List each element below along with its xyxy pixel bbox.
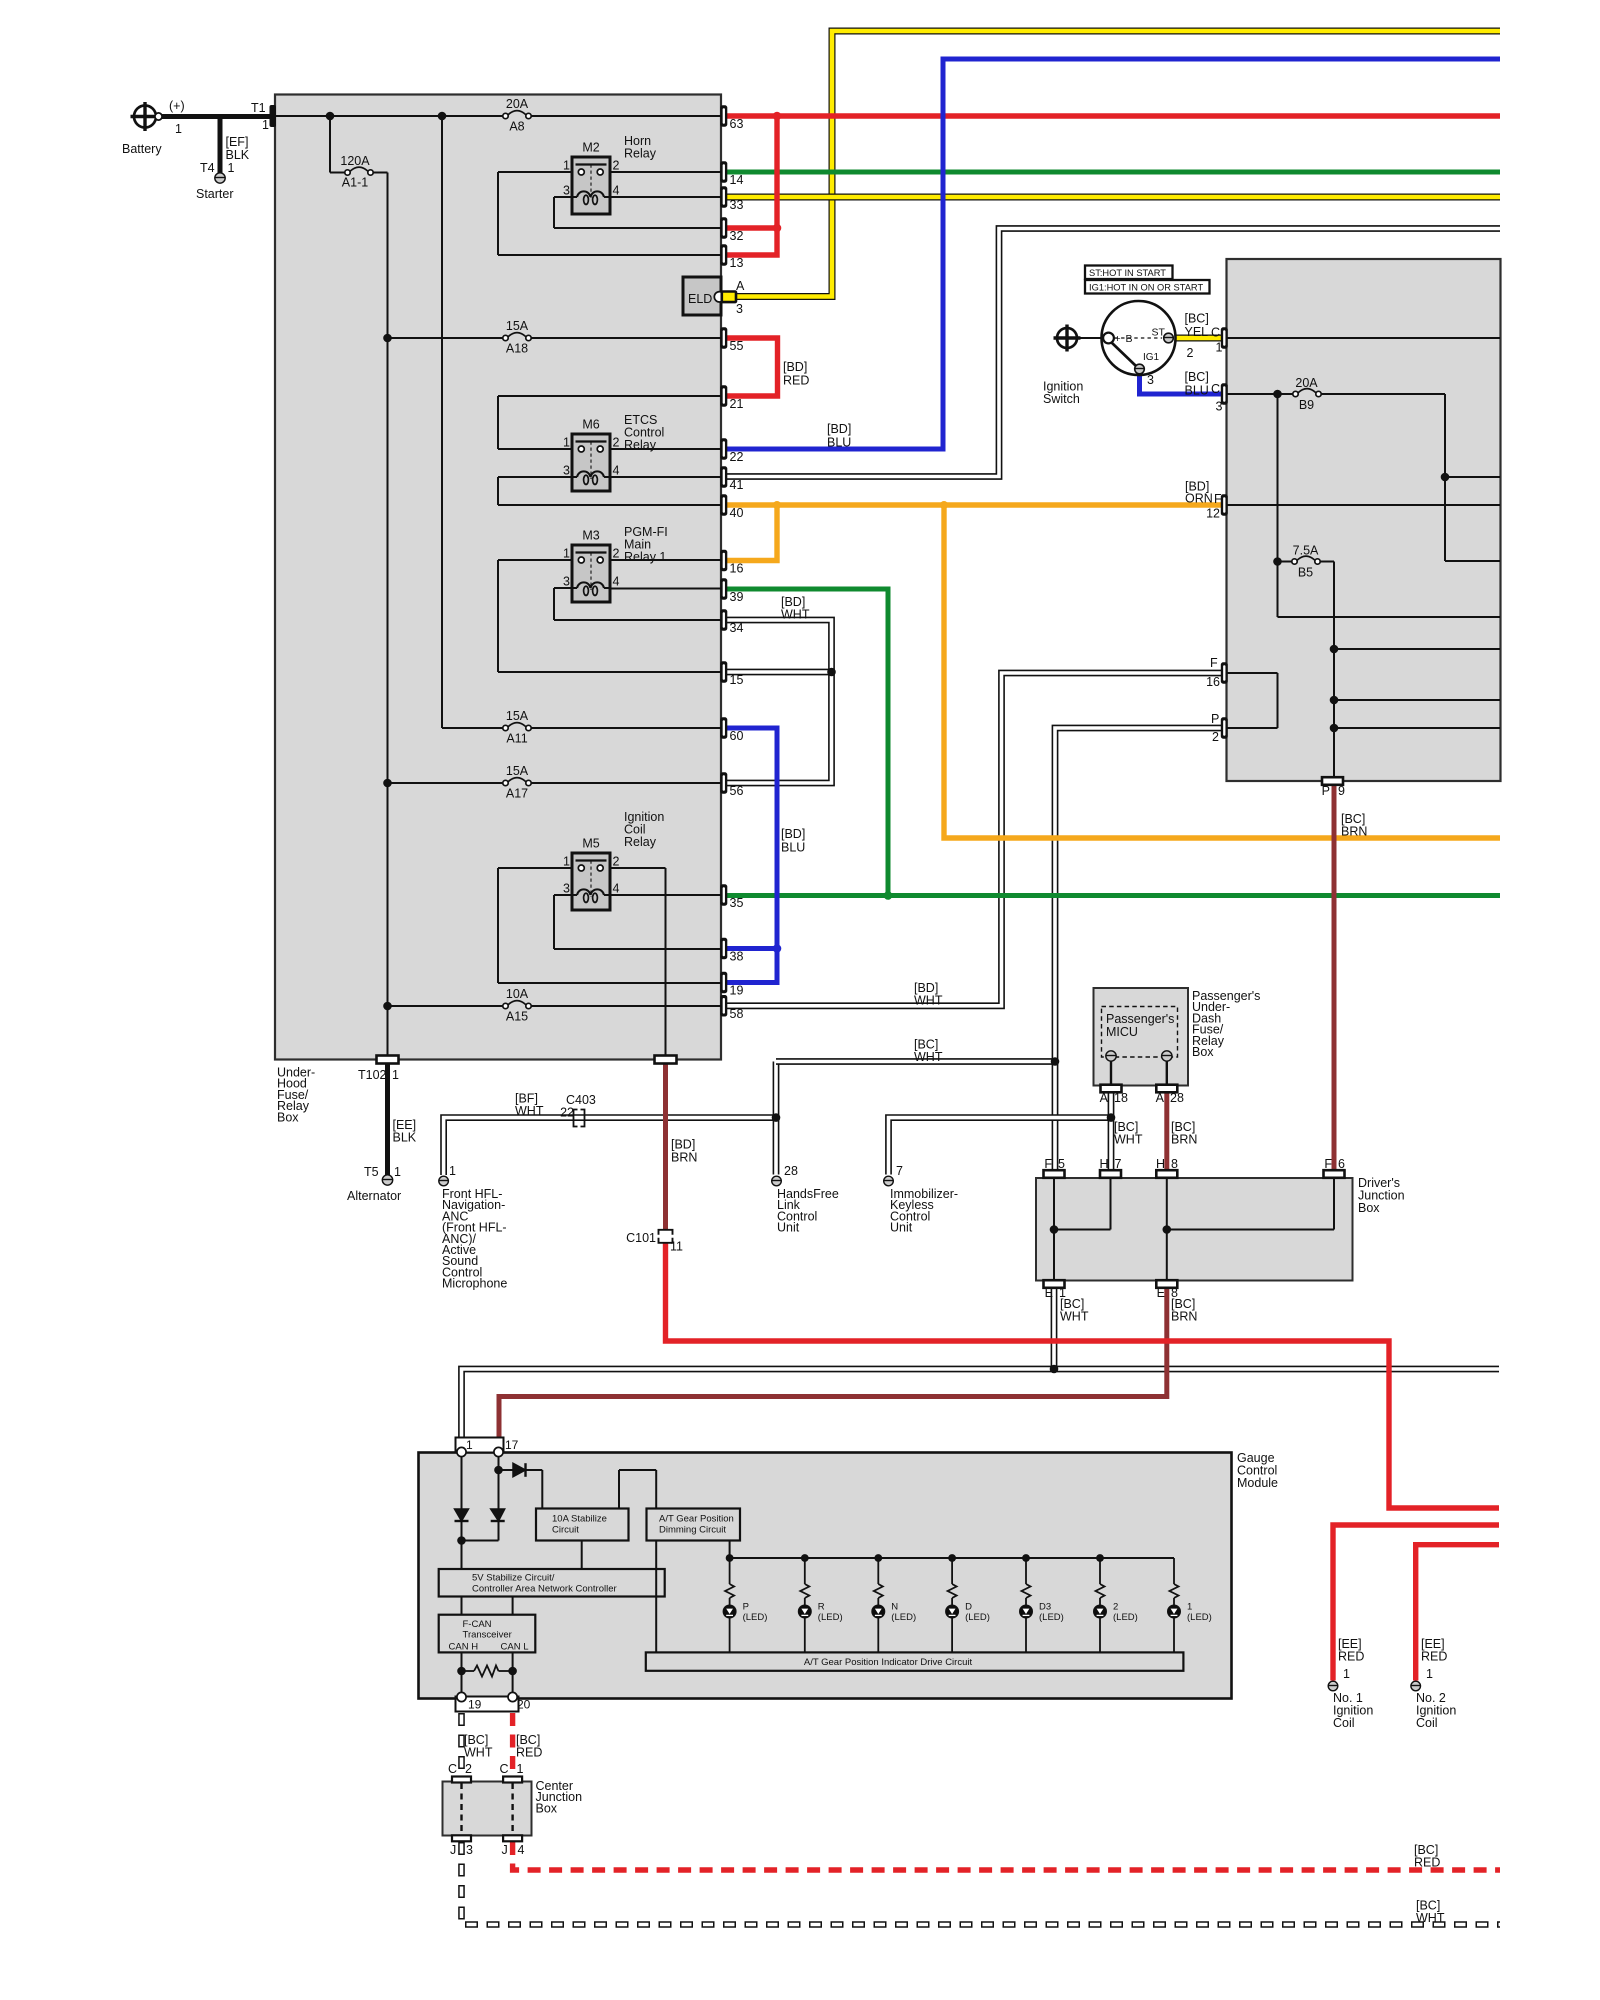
svg-text:T4: T4 <box>200 161 215 175</box>
svg-text:P: P <box>743 1602 749 1613</box>
svg-text:A11: A11 <box>506 732 527 746</box>
svg-text:Coil: Coil <box>1416 1716 1438 1730</box>
svg-text:BRN: BRN <box>1341 825 1367 839</box>
svg-text:Dimming Circuit: Dimming Circuit <box>659 1525 726 1536</box>
svg-text:3: 3 <box>563 464 570 478</box>
svg-text:9: 9 <box>1338 784 1345 798</box>
svg-text:M3: M3 <box>582 529 599 543</box>
svg-text:RED: RED <box>516 1746 542 1760</box>
svg-text:WHT: WHT <box>1114 1133 1143 1147</box>
svg-text:5V Stabilize Circuit/: 5V Stabilize Circuit/ <box>472 1573 555 1584</box>
svg-text:A: A <box>1100 1091 1109 1105</box>
svg-text:J: J <box>450 1843 456 1857</box>
svg-text:WHT: WHT <box>914 1050 943 1064</box>
svg-text:[BC]: [BC] <box>1185 370 1209 384</box>
svg-text:21: 21 <box>730 397 744 411</box>
svg-text:3: 3 <box>563 575 570 589</box>
svg-text:4: 4 <box>613 882 620 896</box>
svg-text:4: 4 <box>518 1843 525 1857</box>
svg-text:3: 3 <box>563 882 570 896</box>
svg-text:7: 7 <box>1115 1157 1122 1171</box>
svg-text:D: D <box>965 1602 972 1613</box>
svg-text:J: J <box>502 1843 508 1857</box>
svg-text:H: H <box>1156 1157 1165 1171</box>
svg-text:Switch: Switch <box>1043 392 1080 406</box>
svg-text:(LED): (LED) <box>743 1612 768 1623</box>
svg-text:RED: RED <box>1421 1650 1447 1664</box>
svg-text:[BD]: [BD] <box>671 1138 695 1152</box>
svg-text:20A: 20A <box>506 97 529 111</box>
svg-text:3: 3 <box>736 302 743 316</box>
svg-text:40: 40 <box>730 506 744 520</box>
svg-text:C101: C101 <box>626 1231 656 1245</box>
svg-text:2: 2 <box>1187 346 1194 360</box>
svg-text:1: 1 <box>1426 1667 1433 1681</box>
svg-text:T102: T102 <box>358 1068 387 1082</box>
svg-text:Controller Area Network Contro: Controller Area Network Controller <box>472 1584 617 1595</box>
svg-text:+: + <box>1115 333 1121 345</box>
svg-text:BLU: BLU <box>1185 384 1209 398</box>
svg-text:1: 1 <box>175 122 182 136</box>
svg-text:28: 28 <box>1170 1091 1184 1105</box>
svg-text:1: 1 <box>466 1438 473 1452</box>
svg-text:3: 3 <box>563 184 570 198</box>
svg-text:60: 60 <box>730 729 744 743</box>
svg-text:[EF]: [EF] <box>226 135 249 149</box>
svg-text:15A: 15A <box>506 764 529 778</box>
svg-text:Microphone: Microphone <box>442 1277 507 1291</box>
svg-text:120A: 120A <box>340 154 370 168</box>
svg-text:B9: B9 <box>1299 398 1314 412</box>
svg-text:14: 14 <box>730 173 744 187</box>
svg-text:Unit: Unit <box>890 1221 913 1235</box>
svg-text:WHT: WHT <box>914 994 943 1008</box>
svg-text:1: 1 <box>1216 341 1223 355</box>
svg-text:1: 1 <box>563 159 570 173</box>
svg-text:P: P <box>1322 784 1330 798</box>
svg-text:BLU: BLU <box>827 436 851 450</box>
svg-text:2: 2 <box>613 159 620 173</box>
svg-text:M6: M6 <box>582 418 599 432</box>
svg-text:A15: A15 <box>506 1010 528 1024</box>
svg-text:4: 4 <box>613 575 620 589</box>
svg-text:ST: ST <box>1152 327 1166 339</box>
svg-text:BRN: BRN <box>1171 1133 1197 1147</box>
svg-text:2: 2 <box>1113 1602 1118 1613</box>
svg-text:BLK: BLK <box>226 148 250 162</box>
svg-text:16: 16 <box>1206 675 1220 689</box>
svg-text:WHT: WHT <box>1416 1911 1445 1925</box>
svg-text:IG1: IG1 <box>1143 352 1160 363</box>
svg-text:WHT: WHT <box>1060 1310 1089 1324</box>
svg-text:58: 58 <box>730 1007 744 1021</box>
svg-text:3: 3 <box>466 1843 473 1857</box>
svg-text:3: 3 <box>1216 400 1223 414</box>
svg-text:Box: Box <box>1358 1201 1380 1215</box>
svg-text:BLU: BLU <box>781 841 805 855</box>
svg-text:M5: M5 <box>582 837 599 851</box>
svg-text:15A: 15A <box>506 319 529 333</box>
svg-text:7.5A: 7.5A <box>1293 544 1319 558</box>
svg-text:F: F <box>1214 492 1222 506</box>
svg-text:B: B <box>1126 333 1133 345</box>
svg-text:4: 4 <box>613 184 620 198</box>
svg-text:2: 2 <box>1212 730 1219 744</box>
svg-text:1: 1 <box>563 436 570 450</box>
svg-text:Box: Box <box>1192 1045 1214 1059</box>
svg-text:ORN: ORN <box>1185 492 1213 506</box>
svg-text:(LED): (LED) <box>1039 1612 1064 1623</box>
svg-text:E: E <box>1157 1286 1165 1300</box>
svg-text:16: 16 <box>730 562 744 576</box>
svg-text:CAN L: CAN L <box>501 1642 529 1653</box>
svg-text:M2: M2 <box>582 141 599 155</box>
svg-text:[BD]: [BD] <box>781 827 805 841</box>
svg-text:22: 22 <box>730 450 744 464</box>
svg-text:ST:HOT IN START: ST:HOT IN START <box>1089 268 1166 278</box>
svg-text:Battery: Battery <box>122 142 162 156</box>
svg-text:33: 33 <box>730 198 744 212</box>
svg-text:15A: 15A <box>506 709 529 723</box>
svg-text:19: 19 <box>730 984 744 998</box>
svg-text:C: C <box>448 1762 457 1776</box>
svg-text:55: 55 <box>730 339 744 353</box>
svg-text:[BD]: [BD] <box>827 422 851 436</box>
svg-text:34: 34 <box>730 621 744 635</box>
svg-text:7: 7 <box>896 1164 903 1178</box>
svg-text:A/T Gear Position: A/T Gear Position <box>659 1514 734 1525</box>
svg-text:YEL: YEL <box>1185 325 1209 339</box>
svg-text:11: 11 <box>670 1240 683 1254</box>
svg-text:6: 6 <box>1338 1157 1345 1171</box>
svg-text:(+): (+) <box>169 99 185 113</box>
svg-text:56: 56 <box>730 784 744 798</box>
svg-text:32: 32 <box>730 229 744 243</box>
svg-text:17: 17 <box>505 1438 519 1452</box>
svg-text:28: 28 <box>784 1164 798 1178</box>
svg-text:20A: 20A <box>1295 376 1318 390</box>
svg-text:35: 35 <box>730 896 744 910</box>
svg-text:Alternator: Alternator <box>347 1189 401 1203</box>
svg-text:IG1:HOT IN ON OR START: IG1:HOT IN ON OR START <box>1089 283 1203 293</box>
svg-text:4: 4 <box>613 464 620 478</box>
svg-text:BRN: BRN <box>1171 1310 1197 1324</box>
svg-text:19: 19 <box>468 1698 482 1712</box>
svg-text:A: A <box>1156 1091 1165 1105</box>
svg-text:BRN: BRN <box>671 1151 697 1165</box>
svg-text:1: 1 <box>449 1164 456 1178</box>
svg-text:5: 5 <box>1058 1157 1065 1171</box>
svg-text:R: R <box>818 1602 825 1613</box>
svg-text:63: 63 <box>730 117 744 131</box>
svg-text:WHT: WHT <box>464 1746 493 1760</box>
svg-text:10A Stabilize: 10A Stabilize <box>552 1514 607 1525</box>
svg-text:Starter: Starter <box>196 187 234 201</box>
svg-text:N: N <box>891 1602 898 1613</box>
svg-text:1: 1 <box>228 161 235 175</box>
svg-text:1: 1 <box>563 855 570 869</box>
svg-text:15: 15 <box>730 673 744 687</box>
svg-text:Module: Module <box>1237 1476 1278 1490</box>
svg-text:C: C <box>500 1762 509 1776</box>
svg-text:(LED): (LED) <box>965 1612 990 1623</box>
svg-text:(LED): (LED) <box>818 1612 843 1623</box>
svg-text:38: 38 <box>730 950 744 964</box>
svg-text:1: 1 <box>262 118 269 132</box>
svg-text:22: 22 <box>560 1106 574 1120</box>
svg-text:F: F <box>1044 1157 1052 1171</box>
svg-text:B5: B5 <box>1298 566 1313 580</box>
svg-text:ELD: ELD <box>688 292 712 306</box>
svg-text:(LED): (LED) <box>891 1612 916 1623</box>
svg-text:MICU: MICU <box>1106 1025 1138 1039</box>
svg-text:39: 39 <box>730 590 744 604</box>
svg-text:20: 20 <box>517 1698 531 1712</box>
svg-text:Circuit: Circuit <box>552 1525 579 1536</box>
svg-text:Unit: Unit <box>777 1221 800 1235</box>
svg-text:10A: 10A <box>506 987 529 1001</box>
svg-text:WHT: WHT <box>781 608 810 622</box>
svg-text:E: E <box>1045 1286 1053 1300</box>
svg-text:2: 2 <box>613 855 620 869</box>
svg-text:Transceiver: Transceiver <box>463 1630 512 1641</box>
svg-text:F: F <box>1210 656 1218 670</box>
svg-text:1: 1 <box>1343 1667 1350 1681</box>
svg-text:41: 41 <box>730 478 744 492</box>
svg-text:13: 13 <box>730 256 744 270</box>
svg-text:[BC]: [BC] <box>1185 312 1209 326</box>
svg-text:Relay: Relay <box>624 147 657 161</box>
svg-text:A17: A17 <box>506 787 528 801</box>
svg-text:18: 18 <box>1114 1091 1128 1105</box>
svg-text:A/T Gear Position Indicator Dr: A/T Gear Position Indicator Drive Circui… <box>804 1657 973 1668</box>
svg-text:1: 1 <box>1187 1602 1192 1613</box>
svg-text:[BD]: [BD] <box>783 360 807 374</box>
svg-text:3: 3 <box>1147 373 1154 387</box>
svg-text:H: H <box>1099 1157 1108 1171</box>
svg-text:8: 8 <box>1171 1157 1178 1171</box>
svg-text:2: 2 <box>613 547 620 561</box>
svg-text:WHT: WHT <box>515 1104 544 1118</box>
svg-text:1: 1 <box>517 1762 524 1776</box>
svg-text:Coil: Coil <box>1333 1716 1355 1730</box>
svg-text:1: 1 <box>563 547 570 561</box>
svg-text:P: P <box>1211 712 1219 726</box>
svg-text:Relay: Relay <box>624 835 657 849</box>
svg-text:CAN H: CAN H <box>449 1642 479 1653</box>
svg-text:F: F <box>1324 1157 1332 1171</box>
svg-text:RED: RED <box>783 374 809 388</box>
svg-text:F-CAN: F-CAN <box>463 1619 492 1630</box>
svg-text:12: 12 <box>1206 507 1220 521</box>
svg-text:A1-1: A1-1 <box>342 176 368 190</box>
svg-text:Relay 1: Relay 1 <box>624 550 666 564</box>
svg-text:Relay: Relay <box>624 438 657 452</box>
svg-text:1: 1 <box>394 1165 401 1179</box>
svg-text:T1: T1 <box>251 101 266 115</box>
svg-text:(LED): (LED) <box>1187 1612 1212 1623</box>
svg-text:D3: D3 <box>1039 1602 1051 1613</box>
svg-text:A8: A8 <box>509 120 524 134</box>
svg-text:RED: RED <box>1338 1650 1364 1664</box>
svg-text:(LED): (LED) <box>1113 1612 1138 1623</box>
svg-text:1: 1 <box>392 1068 399 1082</box>
svg-text:2: 2 <box>465 1762 472 1776</box>
svg-text:A: A <box>736 279 745 293</box>
svg-text:2: 2 <box>613 436 620 450</box>
svg-text:Box: Box <box>277 1110 299 1124</box>
svg-text:C: C <box>1211 326 1220 340</box>
svg-text:C: C <box>1211 382 1220 396</box>
svg-text:BLK: BLK <box>393 1131 417 1145</box>
svg-text:RED: RED <box>1414 1856 1440 1870</box>
svg-text:T5: T5 <box>364 1165 379 1179</box>
svg-text:Box: Box <box>536 1801 558 1815</box>
svg-text:Passenger's: Passenger's <box>1106 1012 1174 1026</box>
svg-text:A18: A18 <box>506 342 528 356</box>
